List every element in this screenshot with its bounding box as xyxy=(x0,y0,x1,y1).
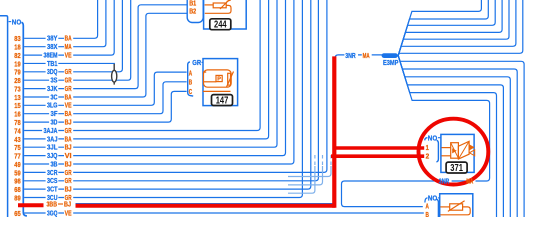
wire pin 89 net 3CU-GR xyxy=(14,0,302,202)
wire pin 43 net 3AJ-BA xyxy=(14,0,268,144)
wire pin 98 net 3CS-GR xyxy=(14,0,318,186)
connector label NO of bottom sensor xyxy=(428,193,440,202)
svg-text:B: B xyxy=(426,210,430,217)
wire splice fan up 7 xyxy=(398,0,523,56)
pale twin wires of 3CR/3CS/3CT xyxy=(288,152,331,193)
wire label 3NR-MA (top) xyxy=(344,51,371,60)
connector label GR of 147 xyxy=(192,58,203,67)
svg-text:C: C xyxy=(189,87,193,96)
svg-text:3GQ: 3GQ xyxy=(47,208,58,217)
wire pin 28 net 3S-GR xyxy=(14,0,130,85)
pin C of 147 xyxy=(189,87,193,96)
svg-text:371: 371 xyxy=(450,163,463,174)
thermistor symbol inside bottom sensor xyxy=(440,201,470,215)
ECU computer box edge xyxy=(0,16,8,217)
component box bottom sensor xyxy=(440,194,473,217)
svg-text:VE: VE xyxy=(65,208,72,217)
wire splice fan up 1 xyxy=(398,0,481,56)
wire pin 59 net 3CR-GR xyxy=(14,0,327,177)
wire splice fan up 3 xyxy=(398,0,495,56)
connector bracket (ECU, NO) xyxy=(21,22,27,216)
svg-text:MA: MA xyxy=(466,177,473,186)
pin B of bottom sensor xyxy=(426,210,430,219)
wire splice fan up 2 xyxy=(398,0,488,56)
pin A of bottom sensor xyxy=(426,202,430,211)
connector label NO of 371 xyxy=(428,134,441,143)
wire pin 79 net 3DQ-GR xyxy=(14,0,122,77)
pin B of 147 xyxy=(189,78,193,87)
highlighted wire 3BB long run (red) xyxy=(76,204,336,208)
wire 3NR vertical (under red highlight) xyxy=(332,55,383,204)
wire 3BB-BJ (highlighted row) xyxy=(47,199,333,208)
wire splice fan down 5 xyxy=(398,56,524,217)
connector bracket of 244 xyxy=(187,0,203,23)
pin 2 of 371 xyxy=(426,151,430,160)
wire splice fan down 1 xyxy=(398,56,496,217)
label box 244 xyxy=(210,19,231,31)
shielding loop symbol xyxy=(112,64,117,85)
component box 147 xyxy=(203,59,238,106)
wire pin 82 net 38EM-VE xyxy=(14,0,114,60)
wire splice fan up 4 xyxy=(398,0,502,56)
svg-text:BJ: BJ xyxy=(64,199,71,208)
svg-text:A: A xyxy=(189,68,193,77)
svg-text:NO: NO xyxy=(428,193,438,202)
highlighted wire to injector pin 2 (red) xyxy=(331,154,424,158)
white gaps for bottom 3NR-MA labels xyxy=(438,178,476,185)
wire pin 16 net 3F-BA xyxy=(14,82,186,119)
svg-text:244: 244 xyxy=(214,20,227,31)
svg-text:3BB: 3BB xyxy=(47,199,58,208)
svg-text:NO: NO xyxy=(428,134,438,143)
svg-text:2: 2 xyxy=(426,151,430,160)
connector bracket NO of 371 xyxy=(425,138,439,162)
svg-text:3NR: 3NR xyxy=(439,177,450,186)
connector bracket NO of bottom sensor xyxy=(425,198,439,217)
wire 3NR-MA branch to sensor pin A xyxy=(342,56,490,207)
highlighted wire 3BB stub (red) xyxy=(18,203,44,207)
svg-text:89: 89 xyxy=(14,193,20,202)
svg-text:P: P xyxy=(217,77,221,83)
svg-text:GR: GR xyxy=(192,58,201,67)
injector symbol inside 371 xyxy=(442,141,475,159)
svg-text:3NR: 3NR xyxy=(345,51,356,60)
wire pin 77 net 3JQ-VI xyxy=(14,0,285,161)
wire label 3NR (bottom) xyxy=(439,177,450,186)
pin A of 147 xyxy=(189,68,193,77)
wire splice fan down 2 xyxy=(398,56,503,217)
component box 244 xyxy=(204,0,247,29)
wire pin 49 net 3B-BJ xyxy=(14,0,294,169)
highlighted wire to injector pin 1 (red) xyxy=(333,146,424,150)
wire splice fan up 5 xyxy=(398,0,509,56)
ECU connector label NO xyxy=(9,17,22,26)
label box 371 xyxy=(446,162,467,174)
wire pin 18 net 38X-MA xyxy=(14,0,106,52)
component box 371 xyxy=(441,134,474,172)
thermistor symbol inside 244 xyxy=(205,0,231,13)
svg-text:NO: NO xyxy=(12,17,22,26)
wire pin 19 net TB1 xyxy=(14,59,115,69)
connector bracket GR of 147 xyxy=(188,62,194,96)
wire pin 74 net 3AJA-GR xyxy=(14,0,260,135)
highlighted vertical feed (red) xyxy=(332,56,336,207)
wire pin 83 net 38Y-BA xyxy=(14,0,97,43)
wire pin 65 net 3GQ-VE xyxy=(14,208,424,218)
wire splice fan up 6 xyxy=(398,0,516,56)
svg-text:VE: VE xyxy=(65,50,72,59)
wire pin 75 net 3JL-BJ xyxy=(14,0,277,152)
wire pin 78 net 3D-BJ xyxy=(14,91,186,127)
svg-text:B: B xyxy=(189,78,193,87)
wire label MA (bottom) xyxy=(466,177,473,186)
potentiometer symbol inside 147 xyxy=(203,70,234,92)
wire pin 68 net 3CT-BJ xyxy=(14,0,311,194)
wire pin 73 net 3JK-GR xyxy=(14,5,187,94)
label box 147 xyxy=(212,95,233,107)
pin 1 of 371 xyxy=(426,143,429,152)
svg-text:MA: MA xyxy=(363,51,370,60)
wire pin 13 net 3C-BA xyxy=(14,13,187,102)
wire splice fan down 3 xyxy=(398,56,510,217)
red highlight circle around 371 xyxy=(419,119,489,185)
splice E3MP xyxy=(382,53,399,67)
svg-text:B2: B2 xyxy=(189,7,196,16)
svg-text:65: 65 xyxy=(14,209,20,217)
pin B2 of 244 xyxy=(189,7,196,16)
svg-text:E3MP: E3MP xyxy=(383,58,399,67)
wire pin 15 net 3LG-VE xyxy=(14,72,186,110)
svg-text:147: 147 xyxy=(216,95,229,106)
pin B1 of 244 xyxy=(189,0,196,8)
wire splice fan down 4 xyxy=(398,56,517,217)
